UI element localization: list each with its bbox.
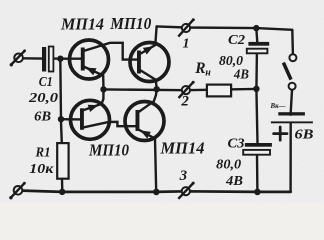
svg-text:80,0: 80,0 xyxy=(216,157,241,172)
capacitor C2 xyxy=(247,42,269,53)
wire C3 bottom xyxy=(256,155,259,192)
wire node to Q3 base xyxy=(61,118,80,121)
node H: Q4 emitter bottom junction xyxy=(153,189,160,196)
wire R1 top xyxy=(60,119,63,143)
wire node to Q1 base xyxy=(60,58,81,60)
wire Q1 collector to Q2 base xyxy=(84,43,138,60)
node A: C1/base junction xyxy=(57,56,63,62)
terminal 1 xyxy=(178,18,195,36)
wire Q4 emitter to bottom rail xyxy=(139,130,156,192)
svg-text:С1: С1 xyxy=(39,74,53,89)
wire C3 top xyxy=(256,89,257,144)
svg-text:10к: 10к xyxy=(29,162,54,177)
switch Vk xyxy=(283,54,296,89)
transistor Q1 (MP14, top-left PNP) xyxy=(70,40,109,79)
svg-text:2: 2 xyxy=(180,94,189,110)
wire Q2 collector to middle rail xyxy=(141,71,157,90)
input terminal bottom xyxy=(9,182,26,200)
bottom rail wire xyxy=(22,191,290,192)
wire Q1 emitter to middle rail xyxy=(84,67,104,90)
wire C1 to base node xyxy=(52,57,60,60)
wire Q2 emitter to top rail xyxy=(141,26,157,53)
svg-text:1: 1 xyxy=(183,37,190,52)
node G: R1 bottom junction xyxy=(59,189,65,195)
capacitor C1 (electrolytic, input) xyxy=(42,47,53,72)
svg-text:3: 3 xyxy=(179,168,188,184)
wire C2 top xyxy=(256,28,257,42)
svg-text:МП10: МП10 xyxy=(88,140,129,159)
wire base bus vertical xyxy=(59,59,62,119)
svg-text:МП14: МП14 xyxy=(60,15,104,34)
transistor Q2 (MP10, top-right NPN) xyxy=(130,43,169,82)
svg-text:МП14: МП14 xyxy=(160,139,205,158)
svg-text:С2: С2 xyxy=(228,32,245,47)
svg-text:R: R xyxy=(194,60,205,77)
transistor Q3 (MP10, bottom-left NPN) xyxy=(71,100,110,139)
node B: Q3 base junction xyxy=(58,116,64,122)
battery GB 6V xyxy=(271,112,313,123)
middle rail wire xyxy=(104,89,257,90)
wire input to C1 xyxy=(23,57,42,60)
node I: C3 bottom junction xyxy=(254,189,261,196)
svg-text:R1: R1 xyxy=(35,145,51,160)
resistor Rn (load) xyxy=(207,85,231,97)
input terminal top xyxy=(10,49,26,66)
wire Q3 emitter to middle rail xyxy=(84,90,104,110)
resistor R1 xyxy=(57,143,68,179)
wire Q4 collector to middle rail xyxy=(139,89,156,111)
terminal 3 xyxy=(178,182,194,199)
svg-text:4В: 4В xyxy=(225,174,243,189)
svg-text:20,0: 20,0 xyxy=(28,91,58,106)
wire C2 bottom xyxy=(255,53,258,89)
node F: middle rail / C2 / C3 junction xyxy=(253,86,259,92)
wire Q3 collector to Q4 base xyxy=(84,122,136,128)
top rail wire xyxy=(157,26,293,29)
capacitor C3 xyxy=(243,143,272,155)
svg-text:4В: 4В xyxy=(233,66,249,81)
node E: top rail / C2 junction xyxy=(253,25,259,31)
svg-text:6В: 6В xyxy=(34,109,51,124)
transistor Q4 (MP14, bottom-right PNP) xyxy=(125,102,164,141)
svg-text:Вк—: Вк— xyxy=(270,102,286,110)
svg-text:МП10: МП10 xyxy=(109,14,151,33)
label battery plus xyxy=(274,127,287,140)
node C: Q1/Q3 emitter junction xyxy=(100,86,106,92)
svg-text:6В: 6В xyxy=(295,128,314,143)
wire R1 bottom xyxy=(61,179,64,192)
wire switch to battery xyxy=(291,90,292,115)
node D: Q2/Q4 collector junction xyxy=(154,86,160,92)
right column wire (battery to bottom rail) xyxy=(289,123,292,192)
wire switch top xyxy=(291,30,294,54)
svg-text:н: н xyxy=(205,68,211,79)
terminal 2 xyxy=(179,81,195,98)
svg-text:С3: С3 xyxy=(228,136,245,151)
